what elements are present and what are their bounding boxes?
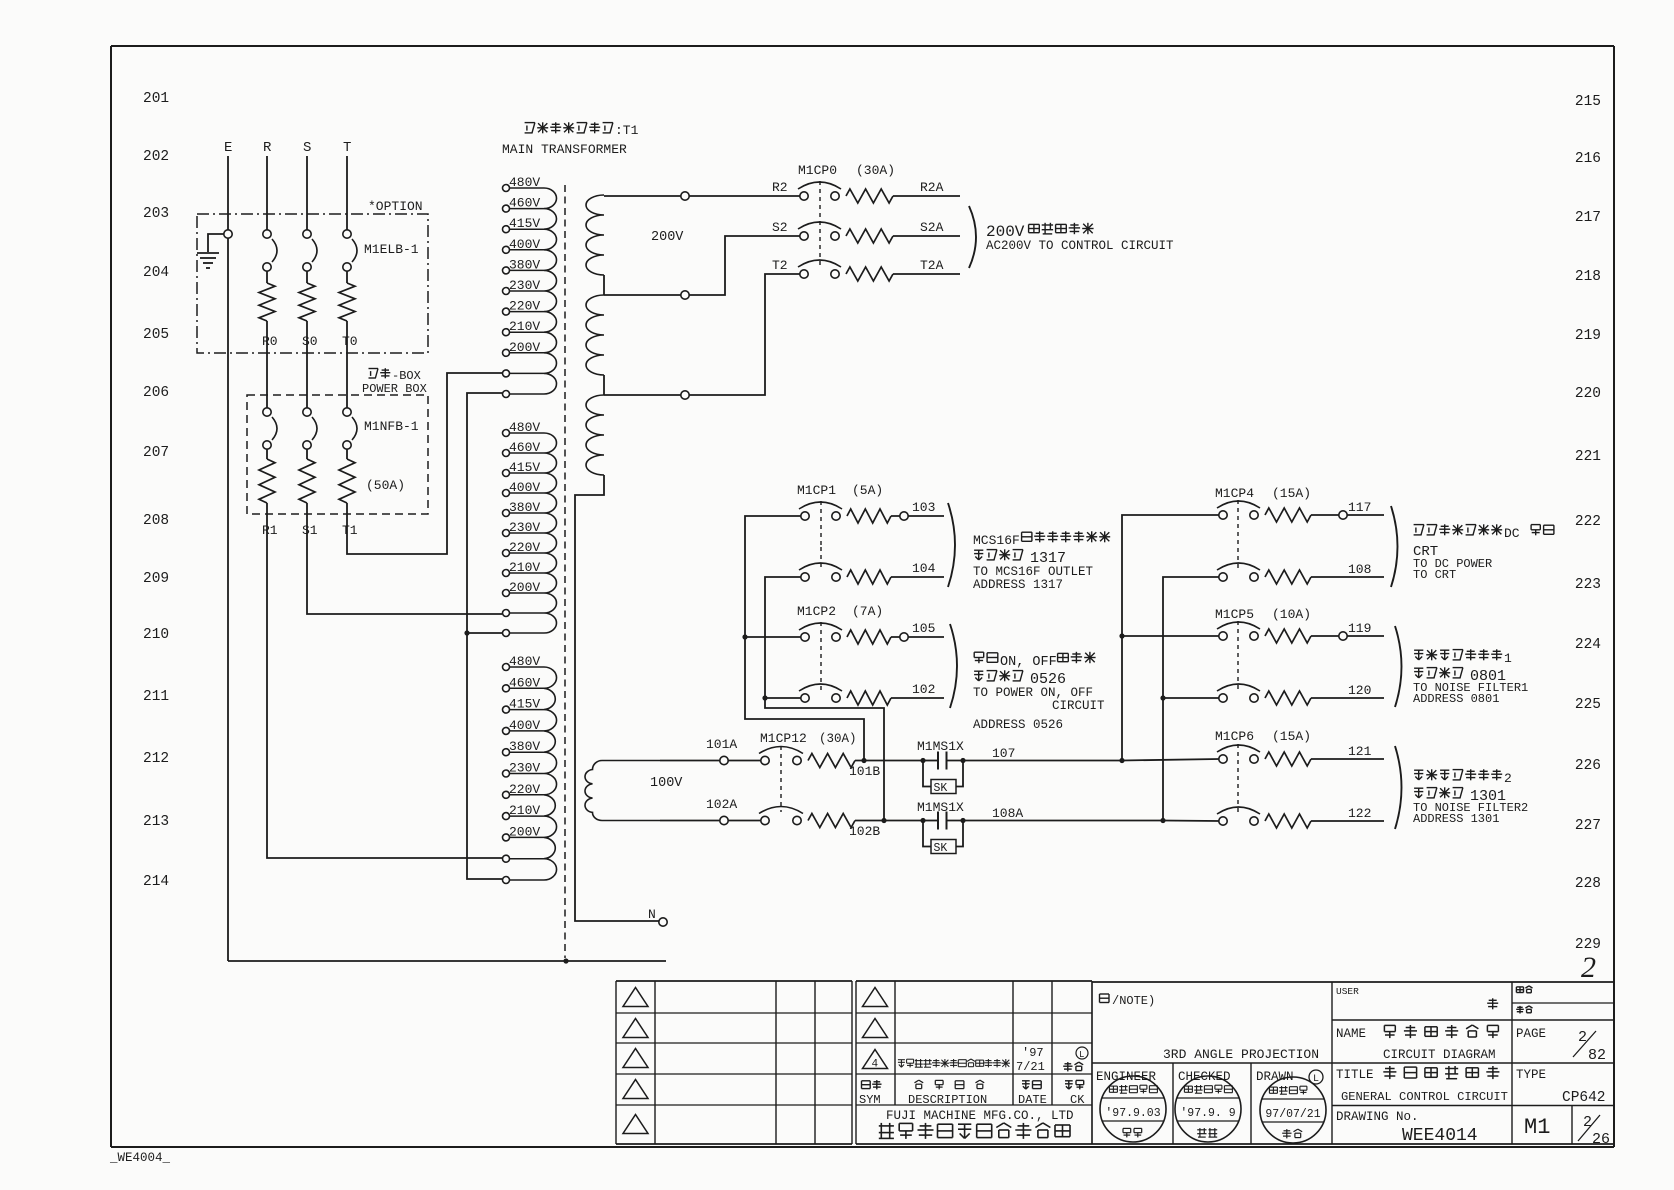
revision entry description [898,1060,905,1068]
resistor M1CP2-105 [847,630,891,644]
breaker M1CP4 pole 2 [1219,573,1227,581]
label フロントライトDC電源 [1414,525,1424,535]
wire 102B out [855,820,923,822]
svg-text:L: L [1313,1074,1319,1085]
transformer 200V secondary stack 1 [586,195,604,275]
svg-text:4: 4 [872,1059,879,1071]
revision table (left) [616,981,852,1144]
wire 102 out [891,697,944,699]
svg-text:480V: 480V [509,654,540,669]
resistor M1CP5-120 [1265,691,1311,705]
svg-text:M1CP4: M1CP4 [1215,486,1254,501]
breaker M1CP6 pole 1 [1219,755,1227,763]
wire 119 out [1311,635,1384,637]
svg-text:7/21: 7/21 [1016,1060,1045,1074]
svg-text:215: 215 [1575,94,1601,110]
stamp ENGINEER 97.9.03 足立 [1100,1076,1166,1142]
svg-text:FUJI MACHINE MFG.CO., LTD: FUJI MACHINE MFG.CO., LTD [886,1109,1074,1123]
revision triangles (middle table) [863,988,888,1007]
breaker M1CP5 trip tie (dashed) [1237,621,1239,690]
wire 104 out [891,576,944,578]
svg-text:SYM: SYM [859,1093,881,1107]
wire resistor T0 down [346,321,348,408]
svg-text:208: 208 [143,513,169,529]
resistor S1 [299,459,315,503]
svg-text:_WE4004_: _WE4004_ [109,1151,171,1165]
svg-text:220V: 220V [509,782,540,797]
svg-text:415V: 415V [509,697,540,712]
label ノイズフィルタ1 [1414,650,1423,660]
breaker M1CP5 pole 1 [1219,632,1227,640]
svg-text:S1: S1 [302,523,318,538]
label 注/NOTE) [1100,994,1110,1003]
resistor R0 [259,283,275,321]
svg-text:212: 212 [143,751,169,767]
svg-text:225: 225 [1575,697,1601,713]
svg-text:TYPE: TYPE [1516,1068,1546,1082]
breaker M1CP12 pole 1 [761,756,769,764]
svg-text:R1: R1 [262,523,278,538]
svg-text:226: 226 [1575,758,1601,774]
resistor M1CP0 S2A [846,229,893,243]
label メイントランス:T1 [525,123,535,133]
wire node 107 [963,760,1122,762]
svg-text:230V: 230V [509,520,540,535]
svg-text:207: 207 [143,445,169,461]
wire 103 out [891,515,944,517]
breaker M1CP2 trip tie (dashed) [820,622,822,690]
junction bus108A on wire 108A [1160,818,1165,823]
resistor M1CP4-117 [1265,508,1311,522]
svg-text:M1: M1 [1524,1115,1550,1140]
svg-text:2: 2 [1583,1114,1592,1131]
svg-text:M1CP5: M1CP5 [1215,607,1254,622]
svg-text:M1CP6: M1CP6 [1215,729,1254,744]
svg-text:102A: 102A [706,797,737,812]
svg-text:ADDRESS 0526: ADDRESS 0526 [973,718,1063,732]
svg-text:R: R [263,140,272,156]
wire 117 out [1311,514,1384,516]
junction bus2 / M1CP2 pole2 input [762,695,767,700]
wire 105 out [891,636,944,638]
svg-text:2: 2 [1504,771,1512,786]
terminal circle T2 source [681,391,689,399]
svg-text:(15A): (15A) [1272,486,1311,501]
svg-text:M1CP2: M1CP2 [797,604,836,619]
breaker M1CP6 pole 2 [1219,817,1227,825]
svg-text:SK: SK [934,842,948,855]
svg-text:107: 107 [992,746,1015,761]
transformer T1 primary winding group 1 (taps 480V-200V) [544,188,557,394]
wire S2A out [893,235,960,237]
breaker M1CP2 pole 2 [801,694,809,702]
wire T pole to resistor T1 [346,449,348,459]
wire T2 from 200V tap [604,274,800,395]
svg-text:S2A: S2A [920,220,944,235]
breaker M1CP4 trip tie (dashed) [1237,500,1239,569]
svg-text:82: 82 [1588,1047,1606,1064]
wire R pole to resistor R1 [266,449,268,459]
resistor M1CP2-102 [847,691,891,705]
svg-text:M1CP1: M1CP1 [797,483,836,498]
svg-text:200V: 200V [509,340,540,355]
resistor M1CP5-119 [1265,629,1311,643]
wire T1 to primary tap (row 206) [347,373,502,554]
svg-text:222: 222 [1575,514,1601,530]
svg-text:224: 224 [1575,637,1601,653]
svg-text:'97: '97 [1022,1046,1044,1060]
revision entry CK [1076,1047,1088,1059]
svg-text:220V: 220V [509,299,540,314]
svg-text:217: 217 [1575,210,1601,226]
svg-text:M1NFB-1: M1NFB-1 [364,419,419,434]
breaker M1CP0 pole S2 [800,232,808,240]
svg-text:200V: 200V [651,230,684,245]
header 担当/CK [1065,1081,1073,1089]
terminal N circle [659,918,667,926]
breaker M1CP12 trip tie (dashed) [780,746,782,812]
svg-text:415V: 415V [509,460,540,475]
wire bus1 to M1CP2 pole1 [745,636,801,638]
bracket MCS16F group [948,503,955,587]
svg-text:ON, OFF: ON, OFF [1000,655,1057,670]
bracket NOISE FILTER1 group [1395,626,1402,707]
company 富士機械製造株式会社 [879,1123,894,1139]
svg-text:(30A): (30A) [819,732,857,746]
wire S2 from 200V tap [604,236,800,295]
label アドレス 1301 [1414,788,1423,798]
wire E to ground [208,234,224,252]
svg-text:202: 202 [143,149,169,165]
svg-text:CIRCUIT DIAGRAM: CIRCUIT DIAGRAM [1383,1048,1496,1062]
svg-text:120: 120 [1348,683,1371,698]
wire resistor R0 down [266,321,268,408]
svg-text:TITLE: TITLE [1336,1068,1374,1082]
svg-text:(30A): (30A) [856,163,895,178]
svg-text::T1: :T1 [615,123,639,138]
svg-text:211: 211 [143,689,169,705]
resistor M1CP4-108 [1265,570,1311,584]
svg-text:*OPTION: *OPTION [368,199,423,214]
wire bus108A to M1CP5 pole2 [1163,697,1219,699]
svg-text:T2A: T2A [920,258,944,273]
svg-text:480V: 480V [509,420,540,435]
svg-text:MCS16F: MCS16F [973,533,1020,548]
bracket DC POWER CRT group [1391,506,1398,587]
svg-text:121: 121 [1348,744,1372,759]
breaker M1CP0 pole T2 [800,270,808,278]
bus M1CP1/M1CP2 pole-2 inputs (from 102B) [765,577,884,821]
breaker M1CP1 trip tie (dashed) [820,501,822,547]
svg-text:'97.9.03: '97.9.03 [1105,1107,1160,1120]
svg-text:97/07/21: 97/07/21 [1265,1108,1320,1121]
svg-text:WEE4014: WEE4014 [1402,1126,1478,1146]
junction bus108A / M1CP5 pole2 [1160,695,1165,700]
breaker M1NFB-1 pole R [263,408,271,416]
svg-text:DC: DC [1504,526,1520,541]
svg-text:122: 122 [1348,806,1371,821]
contact M1MS1X with SK interlock (lower) [923,820,938,822]
wire 120 out [1311,697,1384,699]
svg-text:(5A): (5A) [852,483,883,498]
breaker M1CP0 pole R2 [800,192,808,200]
resistor M1CP12-102B [808,814,855,828]
bracket POWER ON OFF group [950,624,957,708]
svg-text:209: 209 [143,571,169,587]
breaker M1CP12 pole 2 [761,816,769,824]
svg-text:210V: 210V [509,319,540,334]
svg-text:USER: USER [1336,986,1359,997]
svg-text:219: 219 [1575,328,1601,344]
svg-text:R2: R2 [772,180,788,195]
bracket AC200V group [969,206,976,268]
wire R incoming [266,156,268,231]
junction bus107 on wire 107 [1119,758,1124,763]
svg-text:/NOTE): /NOTE) [1112,994,1155,1008]
wire S1 to primary tap (row 209) [307,503,502,614]
svg-text:460V: 460V [509,675,540,690]
wire node 108A [963,820,1163,822]
resistor M1CP6-122 [1265,814,1311,828]
svg-text:200V: 200V [509,580,540,595]
svg-text:S0: S0 [302,334,318,349]
svg-text:117: 117 [1348,500,1371,515]
wire resistor S0 down [306,321,308,408]
svg-text:R2A: R2A [920,180,944,195]
svg-text:206: 206 [143,385,169,401]
svg-text:3RD ANGLE PROJECTION: 3RD ANGLE PROJECTION [1163,1047,1319,1062]
grid line numbers 201-214 (left margin) [143,91,169,890]
ground symbol [197,253,219,268]
svg-text:380V: 380V [509,500,540,515]
svg-text:119: 119 [1348,621,1371,636]
resistor S0 [299,283,315,321]
svg-text:M1ELB-1: M1ELB-1 [364,242,419,257]
wire 101B out [855,760,923,762]
transformer core (dashed) [564,185,566,958]
svg-text:213: 213 [143,814,169,830]
title block info grid [1332,982,1614,1144]
svg-text:GENERAL CONTROL CIRCUIT: GENERAL CONTROL CIRCUIT [1341,1090,1508,1104]
header 記号/SYM [862,1081,871,1089]
revision table (middle) [856,981,1092,1144]
svg-text:1: 1 [1504,651,1512,666]
terminal circle 101A [720,756,728,764]
svg-text:TO POWER ON, OFF: TO POWER ON, OFF [973,686,1093,700]
svg-text:CK: CK [1070,1093,1085,1107]
breaker M1CP1 pole 1 [801,512,809,520]
breaker M1NFB-1 pole T [343,408,351,416]
wire T pole to resistor T0 [346,271,348,283]
svg-text:223: 223 [1575,577,1601,593]
wire R2A out [893,195,960,197]
note box [1092,982,1332,1063]
terminal circle 105 [900,633,908,641]
svg-text:101A: 101A [706,737,737,752]
wire bus2 to M1CP2 pole2 [765,697,801,699]
wire 108A to M1CP6 pole2 [1163,820,1219,823]
svg-text:-BOX: -BOX [392,369,421,383]
svg-text:460V: 460V [509,196,540,211]
label パワ-BOX [369,369,379,379]
svg-text:TO MCS16F OUTLET: TO MCS16F OUTLET [973,565,1094,579]
terminal circle 103 [900,512,908,520]
svg-text:(15A): (15A) [1272,729,1311,744]
svg-text:E: E [224,140,232,156]
svg-text:220V: 220V [509,540,540,555]
svg-text:T1: T1 [342,523,358,538]
svg-text:380V: 380V [509,257,540,272]
svg-text:CP642: CP642 [1562,1090,1606,1106]
approval row dividers [1092,1063,1332,1144]
breaker M1CP6 trip tie (dashed) [1237,744,1239,813]
svg-text:220: 220 [1575,386,1601,402]
svg-text:108: 108 [1348,562,1371,577]
label 殿 [1487,998,1498,1009]
terminal circle 102A [720,816,728,824]
svg-text:CIRCUIT: CIRCUIT [1052,699,1105,713]
svg-text:400V: 400V [509,237,540,252]
contact M1MS1X with SK interlock (upper) [923,760,938,762]
svg-text:380V: 380V [509,739,540,754]
svg-text:M1CP0: M1CP0 [798,163,837,178]
svg-text:(10A): (10A) [1272,607,1311,622]
svg-text:460V: 460V [509,440,540,455]
svg-text:230V: 230V [509,278,540,293]
wire 200V secondary link 2 [603,375,605,395]
resistor R1 [259,459,275,503]
terminal circle 117 [1339,511,1347,519]
svg-text:100V: 100V [650,776,683,791]
svg-text:M1CP12: M1CP12 [760,731,807,746]
terminal circle R2 source [681,192,689,200]
svg-text:102B: 102B [849,824,880,839]
wire R2 from 200V tap [604,195,800,197]
wire R1 to primary tap (row 214) [267,503,502,858]
wire R pole to resistor R0 [266,271,268,283]
junction bus2 on 102B wire [881,818,886,823]
label アドレス 1317 [974,550,983,560]
svg-text:ADDRESS 1317: ADDRESS 1317 [973,578,1063,592]
resistor M1CP12-101B [808,754,855,768]
svg-text:S2: S2 [772,220,788,235]
wire common bus to group2 tap [467,632,502,634]
stamp CHECKED 97.9.9 山本 [1175,1076,1241,1142]
transformer 200V secondary stack 3 [586,395,604,475]
breaker M1ELB-1 pole S [303,230,311,238]
svg-text:M1MS1X: M1MS1X [917,739,964,754]
wire 107 to M1CP6 pole1 [1122,759,1219,761]
svg-text:SK: SK [934,782,948,795]
terminal circle on E line [224,230,232,238]
svg-text:T0: T0 [342,334,358,349]
terminal circle S2 source [681,291,689,299]
resistor M1CP6-121 [1265,752,1311,766]
svg-text:400V: 400V [509,718,540,733]
svg-text:PAGE: PAGE [1516,1027,1546,1041]
svg-text:DATE: DATE [1018,1093,1047,1107]
svg-text:218: 218 [1575,269,1601,285]
bus M1CP1/M1CP2 pole-1 inputs (from 101B) [745,516,864,761]
svg-text:'97.9. 9: '97.9. 9 [1180,1107,1235,1120]
label アドレス 0526 [974,671,983,681]
svg-text:T: T [343,140,351,156]
bus M1CP4/5/6 pole-1 inputs (node 107) [1122,515,1219,761]
svg-text:400V: 400V [509,480,540,495]
svg-text:210V: 210V [509,560,540,575]
svg-text:DRAWING No.: DRAWING No. [1336,1110,1419,1124]
wire 121 out [1311,758,1384,760]
svg-text:228: 228 [1575,876,1601,892]
enclosure POWER BOX (dashed) [247,395,428,514]
svg-text:214: 214 [143,874,169,890]
transformer 200V secondary stack 2 [586,295,604,375]
junction primary common bus / group2 tap [464,630,469,635]
breaker M1CP5 pole 2 [1219,694,1227,702]
svg-text:(7A): (7A) [852,604,883,619]
svg-text:201: 201 [143,91,169,107]
resistor M1CP0 T2A [846,267,893,281]
bus M1CP4/5/6 pole-2 inputs (node 108A) [1163,577,1219,821]
label ノイズフィルタ2 [1414,770,1423,780]
wire 122 out [1311,820,1384,822]
svg-text:210: 210 [143,627,169,643]
title 総合制御回路 [1383,1066,1396,1079]
wire S pole to resistor S1 [306,449,308,459]
wire S incoming [306,156,308,231]
svg-text:M1MS1X: M1MS1X [917,800,964,815]
breaker M1ELB-1 pole R [263,230,271,238]
svg-text:227: 227 [1575,818,1601,834]
title 電気回路線図 [1384,1025,1395,1038]
revision triangles (left table) [623,988,648,1007]
enclosure *OPTION box (dash-dot) [197,214,428,353]
breaker M1CP4 pole 1 [1219,511,1227,519]
svg-text:105: 105 [912,621,935,636]
transformer 100V secondary winding [585,761,660,821]
svg-text:S: S [303,140,311,156]
wire 108 out [1311,576,1384,578]
svg-text:POWER BOX: POWER BOX [362,382,427,396]
header 訂正記録/DESCRIPTION [915,1080,924,1089]
wire T2A out [893,273,960,275]
wire T incoming [346,156,348,231]
transformer T1 primary winding group 2 (taps 480V-200V) [544,433,557,633]
breaker M1NFB-1 pole S [303,408,311,416]
svg-text:216: 216 [1575,151,1601,167]
breaker M1CP1 pole 2 [801,573,809,581]
svg-text:205: 205 [143,327,169,343]
svg-text:204: 204 [143,265,169,281]
svg-text:480V: 480V [509,175,540,190]
svg-text:200V: 200V [509,824,540,839]
svg-text:DESCRIPTION: DESCRIPTION [908,1093,987,1107]
svg-text:210V: 210V [509,803,540,818]
svg-text:108A: 108A [992,806,1023,821]
label アドレス 0801 [1414,668,1423,678]
stamp DRAWN 97/07/21 江坂 [1260,1077,1326,1143]
junction bus1 / M1CP2 input [742,634,747,639]
svg-text:R0: R0 [262,334,278,349]
label 生番 [1516,1006,1524,1014]
resistor M1CP1-104 [847,570,891,584]
breaker M1CP0 trip tie (dashed) [819,181,821,266]
wire 200V secondary link 1 [603,275,605,295]
svg-text:AC200V TO CONTROL CIRCUIT: AC200V TO CONTROL CIRCUIT [986,239,1174,253]
wire 200V secondary bottom to N [575,475,659,921]
wire primary common bus [467,393,502,879]
resistor M1CP0 R2A [846,189,893,203]
